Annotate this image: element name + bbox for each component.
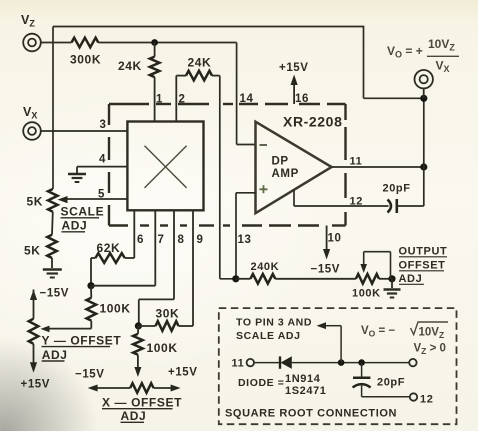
svg-text:7: 7 xyxy=(158,234,165,246)
svg-text:SCALE ADJ: SCALE ADJ xyxy=(236,330,301,342)
svg-text:ADJ: ADJ xyxy=(62,219,88,233)
svg-text:3: 3 xyxy=(100,119,107,131)
svg-text:+15V: +15V xyxy=(168,367,198,379)
svg-text:12: 12 xyxy=(350,196,363,208)
svg-text:5K: 5K xyxy=(24,244,41,258)
svg-text:+15V: +15V xyxy=(279,62,309,74)
svg-text:20pF: 20pF xyxy=(377,377,405,389)
svg-text:1: 1 xyxy=(156,94,163,106)
svg-text:TO PIN 3 AND: TO PIN 3 AND xyxy=(236,317,312,329)
svg-text:SCALE: SCALE xyxy=(61,205,105,219)
svg-text:+15V: +15V xyxy=(21,379,51,391)
svg-text:12: 12 xyxy=(420,394,433,406)
svg-text:1N914: 1N914 xyxy=(285,373,321,385)
svg-text:ADJ: ADJ xyxy=(399,273,423,285)
svg-text:Y — OFFSET: Y — OFFSET xyxy=(42,334,122,348)
svg-text:5K: 5K xyxy=(27,195,44,209)
svg-text:4: 4 xyxy=(99,154,106,166)
svg-text:−15V: −15V xyxy=(75,369,105,381)
svg-text:13: 13 xyxy=(238,234,252,246)
svg-text:100K: 100K xyxy=(352,288,381,300)
svg-text:DIODE =: DIODE = xyxy=(238,377,285,389)
svg-text:100K: 100K xyxy=(147,341,178,355)
svg-text:14: 14 xyxy=(240,93,254,105)
svg-text:2: 2 xyxy=(179,94,186,106)
svg-text:24K: 24K xyxy=(118,59,142,73)
svg-text:AMP: AMP xyxy=(272,168,299,180)
svg-text:SQUARE ROOT CONNECTION: SQUARE ROOT CONNECTION xyxy=(225,408,397,420)
svg-text:−15V: −15V xyxy=(311,264,341,276)
svg-text:OFFSET: OFFSET xyxy=(399,260,446,272)
svg-text:62K: 62K xyxy=(97,241,121,255)
svg-text:240K: 240K xyxy=(251,261,280,273)
svg-text:20pF: 20pF xyxy=(383,183,411,195)
svg-text:30K: 30K xyxy=(156,307,180,321)
svg-text:VX: VX xyxy=(23,105,37,121)
svg-text:1S2471: 1S2471 xyxy=(285,385,327,397)
svg-text:10VZ: 10VZ xyxy=(419,327,445,341)
svg-text:VO = +: VO = + xyxy=(387,44,423,60)
svg-text:10: 10 xyxy=(328,233,342,245)
svg-text:OUTPUT: OUTPUT xyxy=(399,246,448,258)
svg-text:VO = −: VO = − xyxy=(361,325,395,339)
svg-text:VX: VX xyxy=(436,59,450,75)
svg-text:24K: 24K xyxy=(188,56,212,70)
svg-text:XR-2208: XR-2208 xyxy=(283,114,342,130)
svg-text:300K: 300K xyxy=(70,53,101,67)
svg-text:100K: 100K xyxy=(100,302,131,316)
svg-text:X — OFFSET: X — OFFSET xyxy=(102,396,182,410)
svg-text:11: 11 xyxy=(350,156,363,168)
svg-text:VZ > 0: VZ > 0 xyxy=(414,343,446,357)
svg-text:−15V: −15V xyxy=(40,288,70,300)
svg-text:5: 5 xyxy=(98,189,105,201)
svg-text:VZ: VZ xyxy=(21,13,35,29)
svg-text:ADJ: ADJ xyxy=(121,409,147,423)
svg-text:DP: DP xyxy=(272,156,289,168)
svg-text:9: 9 xyxy=(197,234,204,246)
svg-text:8: 8 xyxy=(178,234,185,246)
svg-text:16: 16 xyxy=(295,93,309,105)
svg-text:6: 6 xyxy=(137,234,144,246)
svg-text:ADJ: ADJ xyxy=(42,348,68,362)
svg-text:10VZ: 10VZ xyxy=(428,37,455,53)
svg-text:11: 11 xyxy=(232,358,245,370)
